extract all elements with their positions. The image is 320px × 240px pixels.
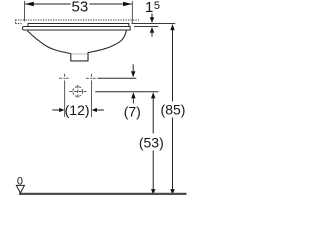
svg-text:53: 53 — [72, 0, 89, 16]
svg-text:(53): (53) — [139, 134, 164, 150]
svg-text:5: 5 — [154, 0, 160, 12]
svg-text:(85): (85) — [161, 102, 186, 118]
svg-text:(12): (12) — [65, 102, 90, 118]
svg-text:(7): (7) — [124, 104, 141, 120]
